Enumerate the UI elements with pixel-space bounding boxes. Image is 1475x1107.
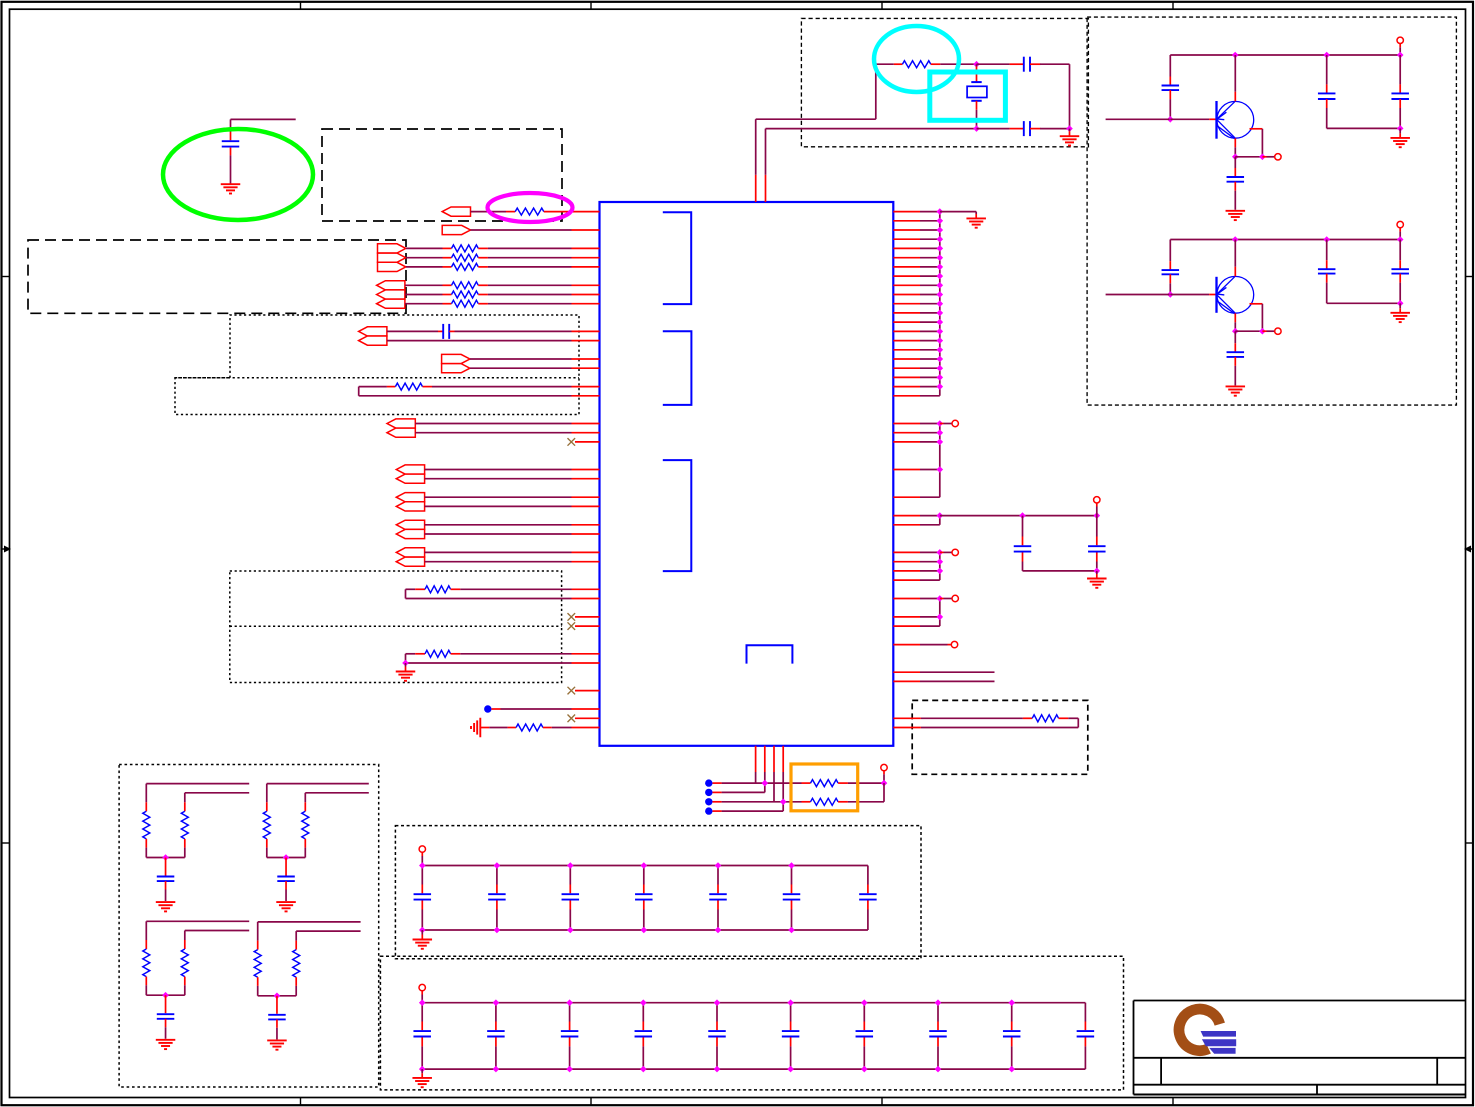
net arrow row14 (left pair bottom): [359, 336, 387, 345]
resistor R-rowB1: [405, 294, 443, 296]
cap bank1 top rail: [422, 865, 868, 867]
right group2 bus vertical: [939, 424, 941, 498]
net arrow row17 (right pair bottom): [442, 364, 470, 373]
junction right row19: [937, 383, 944, 390]
ground below emitter cap: [1226, 385, 1246, 387]
junction right row39: [937, 568, 944, 575]
no-connect X row55: [568, 715, 576, 723]
power rail wire: [1170, 54, 1400, 56]
junction right row12: [937, 319, 944, 326]
wire row38 to IC pin: [425, 561, 572, 563]
wire row54 to IC pin: [501, 708, 572, 710]
resistor RC4a (vertical): [257, 922, 259, 941]
resistor RC1a (vertical): [145, 784, 147, 803]
net arrow rowB0 (left stack): [377, 281, 405, 290]
dashed annotation box top-left: [322, 129, 562, 221]
border tick marks left: [2, 276, 10, 278]
IC bottom pin 4: [782, 746, 784, 772]
junction bank2 bottom 3: [566, 1066, 573, 1073]
junction bank2 bottom 4: [640, 1066, 647, 1073]
wire row35 to IC pin: [425, 533, 572, 535]
junction bank1 bottom 3: [567, 927, 574, 934]
cyan highlight rectangle: [930, 72, 1006, 120]
capacitor C-b1-1: [421, 866, 423, 885]
resistor R-rowB2: [405, 303, 443, 305]
junction bank1 top 6: [788, 862, 795, 869]
RC cell RC4 wire top1: [258, 921, 361, 923]
resistor R-rowA0: [406, 247, 443, 249]
junction base node: [1167, 291, 1174, 298]
junction rail capC: [1323, 52, 1330, 59]
wire to ground top right: [940, 211, 976, 213]
wire rowA2 to IC pin: [488, 266, 572, 268]
junction row49: [402, 660, 409, 667]
port circle top right: [1397, 37, 1403, 43]
IC U1 inner bracket 4: [747, 645, 793, 663]
junction right row0: [937, 208, 944, 215]
ground sideways row56: [479, 718, 481, 738]
capacitor C-b1-3: [569, 866, 571, 885]
junction right row8: [937, 282, 944, 289]
junction right row11: [937, 310, 944, 317]
magenta highlight ellipse: [488, 193, 573, 222]
junction right row1: [937, 218, 944, 225]
cap bank1 port circle: [419, 846, 425, 852]
cyan highlight ellipse: [874, 26, 959, 92]
ground top right of IC: [966, 217, 986, 219]
wire row0 to IC pin: [544, 211, 600, 213]
blue port dots bottom: [705, 779, 712, 786]
IC right pin row8: [893, 284, 920, 286]
IC U1 body: [600, 202, 894, 746]
decoupling cap pair right: top rail: [1023, 515, 1097, 517]
resistor R-ob1: [802, 782, 811, 784]
wire row14 to IC pin: [387, 340, 572, 342]
resistor R-row56: [480, 727, 489, 729]
capacitor C-b1-4: [643, 866, 645, 885]
port circle orange area: [881, 764, 887, 770]
IC U1 inner bracket 1: [663, 212, 691, 304]
junction bank2 top 5: [714, 999, 721, 1006]
ground RC2: [276, 901, 296, 903]
net arrow row34 (left pair): [396, 520, 424, 529]
dotted annotation box cap bank 1: [395, 826, 921, 959]
wire xtal top to cap C-x1: [977, 63, 1010, 65]
IC U1 inner bracket 3: [663, 460, 692, 571]
wire rowA0 to IC pin: [488, 247, 572, 249]
capacitor C-b2-5: [716, 1003, 718, 1022]
capacitor C-b2-7: [863, 1003, 865, 1022]
ground RC3: [156, 1039, 176, 1041]
ground out caps: [1399, 303, 1401, 308]
dashed annotation box transistor area: [1087, 17, 1456, 405]
junction bottom rail: [1397, 300, 1404, 307]
wire row33 to decoupling caps: [940, 515, 1023, 517]
IC right pin row12: [893, 321, 920, 323]
wire XTAL1 from IC top pin: [755, 175, 757, 202]
wire bottom row4: [713, 810, 722, 812]
junction right row17: [937, 365, 944, 372]
port circle side: [1262, 330, 1266, 332]
RC cell RC1 wire top2: [185, 792, 249, 794]
net arrow row32 (left pair): [396, 502, 424, 511]
right pin bus vertical: [939, 212, 941, 396]
junction right row4: [937, 245, 944, 252]
wire row24 to IC pin: [415, 432, 571, 434]
wire row19 to IC pin: [432, 386, 572, 388]
resistor R-row41: [405, 589, 407, 598]
title block frame: [1134, 1000, 1466, 1002]
wire rowB0 to IC pin: [488, 284, 572, 286]
junction bank2 bottom 9: [1008, 1066, 1015, 1073]
capacitor C-base-cpl: [1169, 55, 1171, 77]
IC right pin row51 long stub: [893, 680, 920, 682]
junction bank1 top 3: [567, 862, 574, 869]
border arrow right mid: [1469, 548, 1474, 550]
wire row16 to IC pin: [470, 358, 572, 360]
IC U1 inner bracket 2: [663, 331, 692, 405]
capacitor C-b1-6: [791, 866, 793, 885]
company logo ring: [1179, 1009, 1220, 1051]
IC right pin row50 long stub: [893, 671, 920, 673]
junction orange right: [881, 780, 888, 787]
dashed annotation box left: [28, 240, 406, 313]
power rail wire: [1170, 239, 1400, 241]
resistor RC2a (vertical): [266, 784, 268, 803]
net arrow row24 (left pair bottom): [387, 428, 415, 437]
ground for C-bypass: [221, 183, 241, 185]
junction rail collector: [1232, 236, 1239, 243]
IC right pin row47 with port: [893, 644, 920, 646]
junction right row5: [937, 254, 944, 261]
capacitor C-x2 (series): [977, 128, 1010, 130]
capacitor C-b2-10: [1084, 1003, 1086, 1022]
junction right row33: [937, 512, 944, 519]
IC right pin row38: [893, 561, 920, 563]
wire bottom row3: [713, 801, 722, 803]
resistor RC2b (vertical): [304, 793, 306, 803]
ground bank1: [421, 930, 423, 935]
junction rail capC: [1323, 236, 1330, 243]
junction right row28: [937, 466, 944, 473]
junction rail collector: [1232, 52, 1239, 59]
junction xtal bottom: [973, 125, 980, 132]
wire bottom row2: [713, 791, 722, 793]
IC right pin row16: [893, 358, 920, 360]
junction bank2 bottom 6: [787, 1066, 794, 1073]
ground bank2: [421, 1069, 423, 1073]
IC right pin row15: [893, 349, 920, 351]
junction bank2 top 4: [640, 999, 647, 1006]
capacitor C-RC4: [276, 996, 278, 1014]
junction emitter node: [1232, 154, 1239, 161]
border tick marks top: [300, 2, 302, 9]
capacitor C-b2-3: [569, 1003, 571, 1022]
junction bottom rail: [1397, 125, 1404, 132]
junction side tap: [1259, 154, 1266, 161]
junction bank2 bottom 5: [714, 1066, 721, 1073]
junction right row42: [937, 595, 944, 602]
dotted annotation box mid-left lower divider: [175, 377, 579, 379]
wire collector to rail: [1234, 55, 1236, 92]
net arrow row28 (left pair): [396, 465, 424, 474]
wire right leg xtal: [1069, 64, 1071, 128]
junction bank2 bottom 8: [935, 1066, 942, 1073]
ground crystal area: [1069, 129, 1071, 132]
net arrow row38 (left pair): [396, 557, 424, 566]
IC right pin row31: [893, 496, 920, 498]
IC right pin row28: [893, 469, 920, 471]
junction right row37: [937, 549, 944, 556]
ground out caps: [1399, 128, 1401, 133]
RC cell RC2 wire top2: [305, 792, 369, 794]
wire row31 to IC pin: [425, 496, 572, 498]
IC right pin row9: [893, 294, 920, 296]
dashed annotation box crystal area: [801, 18, 1088, 146]
junction right row44: [937, 614, 944, 621]
capacitor C-base-cpl: [1169, 240, 1171, 262]
ground RC4: [267, 1039, 287, 1041]
resistor RC3a (vertical): [145, 921, 147, 940]
junction right row15: [937, 347, 944, 354]
net arrow row16 (right pair top): [442, 354, 470, 363]
border tick marks bottom: [300, 1098, 302, 1106]
resistor RC3b (vertical): [184, 931, 186, 941]
resistor R-rowA1: [406, 257, 443, 259]
crystal Y1: [976, 64, 978, 66]
capacitor C-b2-2: [495, 1003, 497, 1022]
capacitor C-b2-9: [1011, 1003, 1013, 1022]
wire base input: [1106, 118, 1170, 120]
capacitor C-d1: [1022, 516, 1024, 537]
capacitor C-b2-1: [421, 1003, 423, 1022]
net arrow rowB2 (left stack): [377, 299, 405, 308]
IC right pin row0: [893, 211, 920, 213]
junction right row24: [937, 429, 944, 436]
capacitor C-x1 (series): [1010, 63, 1024, 65]
junction cap pair bottom: [1094, 568, 1101, 575]
junction rail capD: [1397, 52, 1404, 59]
resistor R-row19: [358, 387, 360, 396]
net arrow row29 (left pair): [396, 474, 424, 483]
capacitor C-outA: [1326, 55, 1328, 84]
junction right row10: [937, 300, 944, 307]
RC cell RC4 wire top2: [296, 930, 360, 932]
IC bottom pin 3: [773, 746, 775, 772]
junction bank1 top 2: [494, 862, 501, 869]
junction bank1 top 4: [641, 862, 648, 869]
net arrow row31 (left pair): [396, 493, 424, 502]
dotted annotation box mid-left upper: [175, 315, 579, 415]
resistor R-feedback right: [893, 717, 921, 719]
net arrow row0 (left): [442, 207, 470, 216]
resistor R-xtal: [876, 63, 894, 65]
IC right pin row1: [893, 220, 920, 222]
capacitor C-outA: [1326, 240, 1328, 261]
border tick marks right: [1466, 276, 1474, 278]
wire XTAL2 from IC top pin: [765, 175, 767, 202]
junction bottom row1: [762, 780, 769, 787]
IC bottom pin 2: [764, 746, 766, 772]
IC right pin row7: [893, 275, 920, 277]
wire row23 to IC pin: [415, 423, 571, 425]
RC cell RC1 bottom rail: [146, 857, 185, 859]
IC right pin row34: [893, 524, 920, 526]
junction bank1 top 1: [419, 862, 426, 869]
transistor Q (BJT): [1215, 277, 1217, 313]
wire row41 to IC pin: [460, 588, 571, 590]
green highlight ellipse: [163, 129, 313, 220]
wire rowB2 to IC pin: [488, 303, 572, 305]
resistor R-ob2: [802, 801, 811, 803]
junction base node: [1167, 116, 1174, 123]
IC right pin row2: [893, 229, 920, 231]
capacitor C-emitter: [1234, 157, 1236, 168]
wire emitter down: [1234, 138, 1236, 147]
junction bank1 bottom 6: [788, 927, 795, 934]
wire row37 to IC pin: [425, 551, 572, 553]
junction right row18: [937, 374, 944, 381]
IC right pin row40: [893, 579, 920, 581]
IC right pin row23: [893, 423, 920, 425]
IC right pin row24: [893, 432, 920, 434]
net arrow row35 (left pair): [396, 529, 424, 538]
right group4 bus vertical: [939, 552, 941, 580]
IC right pin row10: [893, 303, 920, 305]
company logo stripes: [1201, 1031, 1236, 1037]
junction bank2 bottom 7: [861, 1066, 868, 1073]
wire base input: [1106, 294, 1170, 296]
dotted annotation box left lower (with divider): [230, 571, 562, 683]
resistor R-row0: [471, 211, 507, 213]
capacitor C-outB: [1399, 240, 1401, 261]
IC right pin row33: [893, 515, 920, 517]
IC right pin row5: [893, 257, 920, 259]
wire row20 to IC pin: [359, 395, 572, 397]
junction right row16: [937, 356, 944, 363]
net arrow rowA1 (right stack): [378, 253, 406, 262]
capacitor C-RC1: [165, 858, 167, 876]
capacitor C-outB: [1399, 55, 1401, 84]
capacitor C-b1-7: [867, 866, 869, 885]
no-connect X row45: [568, 622, 576, 630]
wire emitter side tap: [1250, 128, 1263, 130]
RC cell RC3 wire top2: [185, 930, 249, 932]
junction bank2 top 6: [787, 999, 794, 1006]
cap bank2 bottom rail: [422, 1068, 1085, 1070]
junction cap pair left: [1019, 512, 1026, 519]
wire row28 to IC pin: [425, 469, 572, 471]
net arrow row23 (left pair top): [387, 419, 415, 428]
resistor RC4b (vertical): [295, 931, 297, 941]
junction bank2 top 8: [935, 999, 942, 1006]
IC right pin row25: [893, 441, 920, 443]
net arrow rowA2 (right stack): [378, 262, 406, 271]
wire rowB1 to IC pin: [488, 294, 572, 296]
junction bank1 bottom 2: [494, 927, 501, 934]
series capacitor C-row13: [387, 330, 438, 332]
IC right pin row3: [893, 238, 920, 240]
RC cell RC3 wire top1: [146, 920, 249, 922]
port circle above cap pair: [1094, 497, 1100, 503]
junction right row3: [937, 236, 944, 243]
junction RC3: [162, 992, 169, 999]
junction right row2: [937, 227, 944, 234]
port circle right row37: [940, 551, 944, 553]
no-connect X row52: [568, 687, 576, 695]
net arrow row13 (left pair top): [359, 327, 387, 336]
no-connect X row44: [568, 613, 576, 621]
capacitor C-b1-5: [717, 866, 719, 885]
wire feedback return row56: [921, 727, 1078, 729]
wire row32 to IC pin: [425, 505, 572, 507]
resistor RC1b (vertical): [184, 793, 186, 803]
ground below emitter cap: [1226, 210, 1246, 212]
resistor R-rowB0: [405, 284, 443, 286]
IC right pin row20: [893, 395, 920, 397]
wire row29 to IC pin: [425, 478, 572, 480]
resistor R-rowA2: [406, 266, 443, 268]
capacitor C-d2: [1096, 516, 1098, 537]
IC right pin row14: [893, 340, 920, 342]
orange highlight rectangle: [791, 764, 858, 811]
dashed annotation box right resistor: [912, 700, 1088, 774]
capacitor C-b2-4: [642, 1003, 644, 1022]
wire row17 to IC pin: [470, 367, 572, 369]
blue port dot row54: [484, 705, 491, 712]
capacitor C-emitter: [1234, 331, 1236, 343]
RC cell RC2 bottom rail: [267, 857, 306, 859]
junction bank1 top 5: [715, 862, 722, 869]
wire bottom rail out caps: [1327, 127, 1401, 129]
IC right pin row4: [893, 247, 920, 249]
wire row13 to IC pin: [455, 330, 572, 332]
junction bank2 bottom 2: [493, 1066, 500, 1073]
dotted annotation box cap bank 2: [380, 956, 1123, 1090]
IC right pin row42: [893, 598, 920, 600]
dotted annotation box RC bottom-left: [119, 765, 379, 1088]
junction emitter node: [1232, 328, 1239, 335]
junction right row14: [937, 337, 944, 344]
right group5 bus vertical: [939, 599, 941, 627]
junction right row9: [937, 291, 944, 298]
junction bank1 bottom 4: [641, 927, 648, 934]
junction bank1 bottom 1: [419, 927, 426, 934]
RC cell RC2 wire top1: [267, 783, 369, 785]
capacitor C-b1-2: [496, 866, 498, 885]
capacitor C-RC3: [165, 995, 167, 1013]
ground below row49: [405, 663, 407, 667]
port circle right row23: [940, 423, 944, 425]
IC right pin row19: [893, 386, 920, 388]
capacitor C-bypass top-left: [231, 118, 296, 120]
IC right pin row45: [893, 625, 920, 627]
cap bank1 bottom rail: [422, 929, 868, 931]
IC right pin row6: [893, 266, 920, 268]
junction right row38: [937, 558, 944, 565]
junction bank2 top 7: [861, 999, 868, 1006]
junction right row25: [937, 439, 944, 446]
border arrow left mid: [2, 548, 7, 550]
ground cap pair: [1096, 571, 1098, 574]
net arrow row37 (left pair): [396, 548, 424, 557]
capacitor C-b2-6: [790, 1003, 792, 1022]
IC right pin row18: [893, 376, 920, 378]
wire bottom rail out caps: [1327, 302, 1401, 304]
junction xtal ground: [1066, 125, 1073, 132]
junction bank2 top 9: [1008, 999, 1015, 1006]
junction side tap: [1259, 328, 1266, 335]
